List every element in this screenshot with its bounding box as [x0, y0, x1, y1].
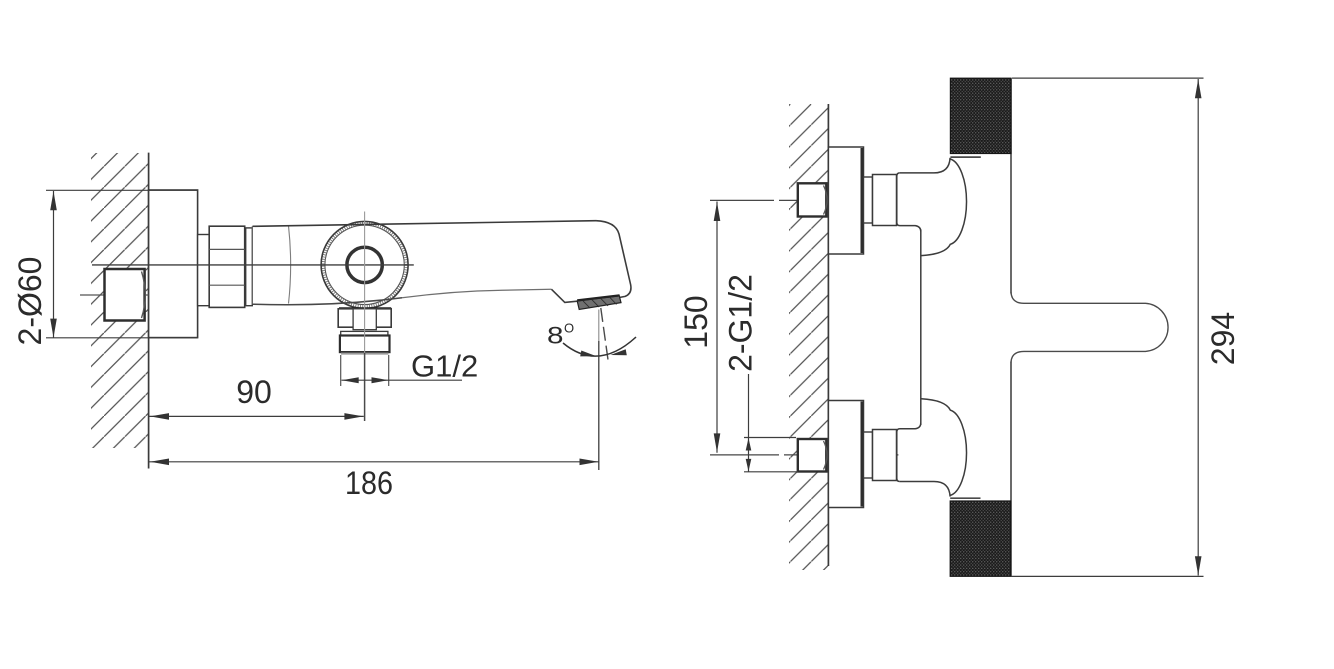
svg-text:G1/2: G1/2 — [411, 349, 478, 384]
svg-text:2-G1/2: 2-G1/2 — [723, 274, 759, 372]
svg-text:294: 294 — [1205, 312, 1241, 365]
svg-text:90: 90 — [236, 374, 272, 410]
svg-text:8: 8 — [547, 323, 564, 350]
svg-text:2-Ø60: 2-Ø60 — [12, 257, 48, 346]
svg-text:150: 150 — [678, 295, 714, 348]
svg-text:186: 186 — [345, 465, 393, 501]
svg-text:O: O — [564, 321, 574, 336]
